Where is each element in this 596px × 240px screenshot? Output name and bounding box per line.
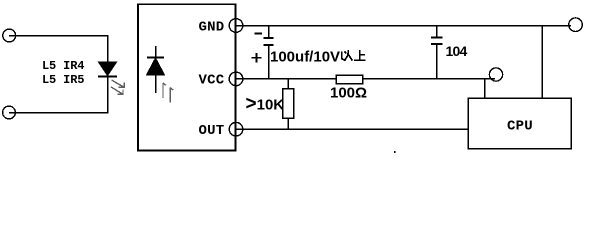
wire VCC tap to CPU [484, 79, 486, 98]
svg-text:100Ω: 100Ω [330, 85, 367, 102]
label 104 [446, 43, 468, 59]
wire from T2 to LED cathode [9, 77, 108, 113]
label CJK yi-shang (or-more) [342, 50, 366, 61]
svg-text:100uf/10V: 100uf/10V [270, 49, 340, 66]
resistor R2 body (100 ohm, in VCC rail) [336, 75, 363, 84]
pin terminal VCC [229, 72, 243, 86]
stray dot mark [394, 151, 396, 153]
label 100 ohm [330, 85, 367, 102]
pin terminal GND [229, 19, 243, 33]
terminal T1 (top-left) [3, 29, 16, 42]
photodiode D2 incoming IR arrows [163, 83, 173, 102]
wire GND tap to CPU [541, 26, 543, 99]
svg-text:GND: GND [199, 19, 225, 35]
capacitor C2 104 [431, 26, 443, 79]
svg-text:104: 104 [446, 43, 468, 59]
svg-text:>10K: >10K [246, 94, 285, 115]
label L5 IR4 [42, 59, 84, 73]
resistor R1 pull-up stubs [287, 79, 289, 129]
terminal T3 (GND rail end, top-right) [569, 18, 583, 32]
capacitor C1 100uF electrolytic [264, 26, 274, 79]
svg-text:L5 IR5: L5 IR5 [42, 73, 84, 87]
receiver module box U1 [138, 4, 236, 150]
svg-text:OUT: OUT [199, 123, 225, 139]
resistor R1 body (>10K) [283, 89, 294, 119]
C1 minus sign [255, 33, 263, 35]
terminal T4 (VCC rail end) [489, 68, 502, 81]
svg-text:CPU: CPU [507, 119, 533, 135]
label L5 IR5 [42, 73, 84, 87]
CPU box U2 [468, 98, 571, 149]
C1 plus sign [252, 53, 262, 63]
pin terminal OUT [229, 122, 243, 136]
label CPU [507, 119, 533, 135]
svg-text:VCC: VCC [199, 73, 225, 89]
LED D1 emission arrows [111, 80, 124, 94]
wire VCC rail [236, 78, 495, 80]
label VCC pin [199, 73, 225, 89]
svg-text:L5 IR4: L5 IR4 [42, 59, 84, 73]
label >10K [246, 94, 285, 115]
label OUT pin [199, 123, 225, 139]
wire GND rail [236, 25, 571, 27]
LED D1 (IR emitter diode) [98, 62, 117, 77]
wire OUT rail [236, 128, 468, 130]
photodiode D2 (inside module) [147, 46, 165, 93]
label 100uf/10V [270, 49, 340, 66]
wire from T1 to LED anode [9, 36, 107, 63]
label GND pin [199, 19, 225, 35]
terminal T2 (bottom-left) [3, 106, 16, 119]
